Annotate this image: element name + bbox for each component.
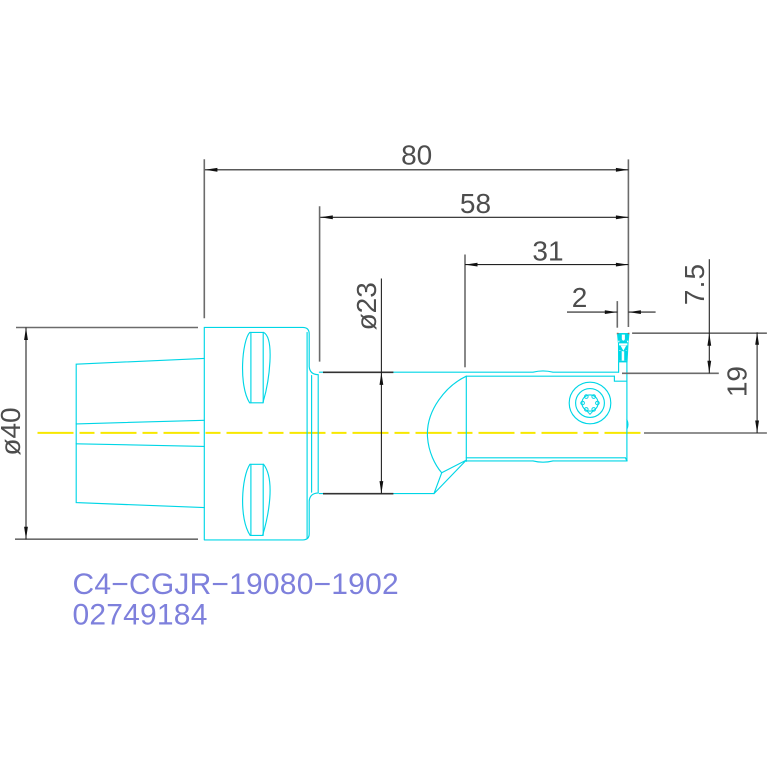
centerline (yellow dashed axis) — [38, 432, 641, 434]
dim line 7.5 — [708, 259, 710, 373]
dimension extension lines — [15, 159, 767, 539]
body inner top line — [466, 375, 614, 377]
dim line 80 — [205, 169, 629, 171]
arrow 2 left outside — [605, 310, 618, 314]
insert outline right — [627, 334, 629, 363]
arrow 19 up — [755, 332, 759, 345]
arrow dia40 down — [24, 527, 28, 540]
insert clamp bands — [618, 334, 629, 362]
shank taper outline — [76, 358, 204, 507]
flange upper lens inner verticals — [251, 332, 263, 402]
ext line 58 left — [319, 206, 321, 361]
neck top edge — [319, 371, 618, 372]
screw head outer circle — [569, 382, 611, 424]
svg-text:02749184: 02749184 — [73, 598, 208, 631]
ext line dia40 bottom — [15, 538, 198, 540]
arrow 80 right — [616, 168, 629, 172]
svg-text:ø40: ø40 — [0, 407, 26, 455]
insert white vee notch — [621, 346, 627, 351]
arrow dia23 down — [380, 481, 384, 494]
arrow dia40 up — [24, 328, 28, 341]
ext line right shared 80/58/31 — [627, 159, 629, 327]
ext line 31 left — [464, 255, 466, 368]
arrow 58 right — [616, 215, 629, 219]
shank taper inner polygon line lower — [76, 444, 204, 447]
insert side white notches — [618, 341, 619, 343]
dim line 58 — [320, 216, 628, 218]
arrow 2 right outside — [628, 310, 641, 314]
ext line dia40 top — [16, 327, 198, 329]
dimension texts — [0, 140, 753, 456]
blade left vertical below insert — [618, 362, 620, 372]
dim line dia23 — [380, 279, 382, 494]
arrowheads — [24, 168, 759, 539]
ext line 7.5/19 top — [632, 332, 767, 334]
svg-text:7.5: 7.5 — [679, 263, 710, 305]
svg-text:C4−CGJR−19080−1902: C4−CGJR−19080−1902 — [73, 568, 399, 601]
arrow 58 left — [320, 215, 333, 219]
svg-text:80: 80 — [401, 140, 432, 171]
body transition arc — [427, 376, 466, 473]
arrow dia23 up — [380, 372, 384, 385]
svg-text:31: 31 — [532, 235, 563, 266]
ext line 7.5 bottom — [622, 372, 719, 374]
shank taper inner polygon line upper — [76, 420, 204, 424]
torx socket — [582, 395, 598, 411]
dimension lines — [26, 170, 757, 539]
neck bottom edge — [319, 493, 434, 495]
arrow 7.5 up — [707, 333, 711, 346]
arrow 7.5 down — [707, 361, 711, 374]
body bottom tangency bump — [533, 461, 553, 462]
arrow 31 right — [616, 263, 629, 267]
ext line 2 left — [616, 301, 618, 328]
body right edge — [625, 362, 627, 461]
arrow 80 left — [205, 168, 218, 172]
arrow 19 down — [755, 421, 759, 434]
body bottom edge upper line — [466, 457, 625, 459]
ext line 80 left — [203, 159, 205, 318]
svg-text:19: 19 — [722, 366, 753, 397]
dim line dia40 — [25, 328, 27, 540]
transition chamfer lines — [434, 460, 466, 494]
flange lower lens inner verticals — [251, 464, 263, 535]
dim line 19 — [756, 332, 758, 433]
flange face second line — [311, 376, 313, 493]
screw head inner circle — [576, 389, 605, 418]
dia23 edge ticks — [323, 372, 393, 493]
flange lower lens recess — [243, 464, 270, 535]
body left edge — [465, 376, 467, 461]
cutting insert assembly (filled) — [618, 333, 629, 335]
arrow 31 left — [465, 263, 478, 267]
insert seat step notch — [614, 376, 627, 381]
svg-text:ø23: ø23 — [351, 282, 382, 330]
dim line 2 — [567, 311, 656, 313]
svg-text:2: 2 — [572, 282, 588, 313]
flange upper lens recess — [243, 332, 271, 402]
ext line 19 bottom — [644, 432, 767, 434]
body right edge bump — [627, 420, 628, 429]
flange right face inner line — [306, 333, 308, 539]
body bottom edge lower line — [466, 460, 627, 462]
insert corner markers — [617, 333, 619, 335]
flange outline — [204, 327, 318, 540]
dim line 31 — [465, 264, 628, 266]
svg-text:58: 58 — [460, 188, 491, 219]
insert outline left — [618, 334, 619, 363]
